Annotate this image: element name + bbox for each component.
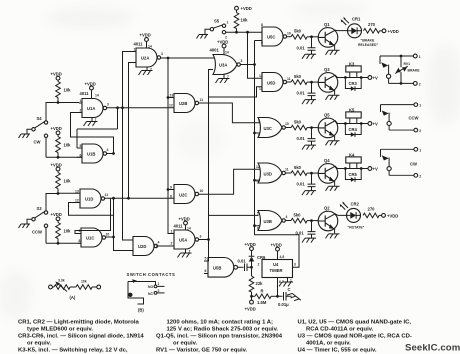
wire pins 6,7 bbox=[278, 278, 284, 297]
node +VDD terminal bbox=[382, 213, 399, 218]
svg-text:1: 1 bbox=[419, 148, 421, 152]
gate NAND U1C bbox=[78, 228, 109, 247]
gate NAND U1B bbox=[77, 144, 109, 163]
switch contacts diagram (B) bbox=[128, 279, 165, 304]
LED CR1 bbox=[341, 17, 362, 38]
resistor 10k bbox=[56, 173, 71, 194]
op: NAND U1A bbox=[79, 99, 109, 118]
svg-text:13: 13 bbox=[256, 179, 260, 183]
svg-text:5k0: 5k0 bbox=[294, 165, 302, 170]
transistor Q1 bbox=[318, 22, 339, 55]
resistor R 1.5M bbox=[252, 289, 278, 305]
node +VDD supply bbox=[51, 126, 62, 137]
svg-text:1200 ohms, 10 mA; contact rati: 1200 ohms, 10 mA; contact rating 1 A; bbox=[167, 320, 274, 326]
svg-text:+V: +V bbox=[373, 122, 378, 127]
svg-text:10k: 10k bbox=[64, 143, 72, 148]
node junction bbox=[57, 101, 60, 104]
gate NAND U5C bbox=[261, 23, 291, 46]
switch S5 bbox=[205, 19, 229, 40]
wire latch coupling U1D->U1C bbox=[75, 198, 111, 233]
svg-text:4: 4 bbox=[158, 241, 160, 245]
wire U5B output bbox=[238, 266, 244, 268]
svg-text:5k0: 5k0 bbox=[294, 213, 302, 218]
svg-text:12: 12 bbox=[169, 104, 173, 108]
ground (S3) bbox=[19, 224, 31, 228]
wire latch coupling U1B->U1A bbox=[71, 113, 114, 154]
gate NAND U5D bbox=[259, 73, 291, 92]
svg-text:3.3k: 3.3k bbox=[58, 279, 65, 283]
svg-text:U1, U2, U5 — CMOS quad NAND-ga: U1, U2, U5 — CMOS quad NAND-gate IC, bbox=[298, 320, 412, 326]
svg-text:22k: 22k bbox=[256, 281, 264, 286]
svg-text:13: 13 bbox=[259, 74, 263, 78]
svg-text:10k: 10k bbox=[81, 280, 87, 284]
svg-text:RELEASED”: RELEASED” bbox=[358, 43, 378, 47]
svg-text:or equiv.: or equiv. bbox=[173, 341, 197, 347]
svg-text:+VDD: +VDD bbox=[85, 82, 96, 87]
svg-text:Q1: Q1 bbox=[324, 22, 330, 27]
wire U2A input feeds bbox=[123, 52, 134, 199]
svg-text:14: 14 bbox=[148, 45, 152, 49]
wire / resistor 5k0 (ch3) bbox=[285, 120, 318, 130]
resistor 270 (ch1) bbox=[364, 22, 383, 33]
svg-text:+VDD: +VDD bbox=[51, 72, 62, 77]
resistor 10k bbox=[56, 137, 71, 158]
svg-text:0.01: 0.01 bbox=[297, 182, 306, 187]
wire bbox=[46, 156, 82, 158]
svg-text:U1B: U1B bbox=[87, 152, 95, 157]
wire bus (timer/rotate) x=254.5 bbox=[255, 41, 263, 226]
wire / resistor 5k0 (ch4) bbox=[285, 165, 318, 175]
svg-text:U2A: U2A bbox=[141, 56, 149, 61]
svg-text:125 V ac; Radio Shack 275-003: 125 V ac; Radio Shack 275-003 or equiv. bbox=[167, 327, 279, 333]
svg-text:U2B: U2B bbox=[179, 101, 187, 106]
wire pin 3 feedback to gates bbox=[255, 226, 300, 268]
svg-text:2: 2 bbox=[80, 109, 82, 113]
node +VDD supply top-left bbox=[51, 72, 62, 82]
wire latch coupling U1C->U1D bbox=[69, 203, 114, 216]
svg-text:U5B: U5B bbox=[213, 266, 221, 271]
resistor 10k bbox=[56, 223, 71, 244]
wire / resistor 5k0 (ch1) bbox=[287, 29, 319, 40]
gate NOR U3B bbox=[257, 211, 288, 231]
svg-text:CW: CW bbox=[410, 162, 417, 167]
resistor 22k bbox=[249, 267, 263, 296]
svg-text:U1D: U1D bbox=[85, 197, 93, 202]
svg-text:10k: 10k bbox=[241, 18, 249, 23]
svg-text:U5A: U5A bbox=[179, 238, 187, 243]
pin 4,8 +VDD bbox=[271, 243, 285, 260]
node +VDD supply bbox=[51, 212, 62, 223]
wire to U2D lower input bbox=[114, 198, 131, 250]
svg-text:SWITCH CONTACTS: SWITCH CONTACTS bbox=[127, 272, 176, 277]
svg-text:13: 13 bbox=[75, 190, 79, 194]
svg-text:RV1: RV1 bbox=[404, 62, 411, 66]
svg-text:+VDD: +VDD bbox=[387, 213, 398, 218]
node +VDD terminal bbox=[382, 29, 399, 34]
wire bus (rotate enable) x=168 bbox=[168, 58, 174, 234]
label 4011 / pin 14 / +VDD for U5A bbox=[174, 217, 191, 231]
svg-text:3: 3 bbox=[161, 52, 163, 56]
relay K5 with diode CR4 bbox=[337, 108, 378, 137]
svg-text:S5: S5 bbox=[214, 19, 220, 24]
transistor Q5 bbox=[318, 113, 339, 146]
svg-text:0.01: 0.01 bbox=[297, 46, 306, 51]
switch S3 bbox=[27, 206, 48, 243]
relay K4 with diode CR5 bbox=[337, 153, 378, 182]
node junctions bbox=[112, 197, 115, 200]
svg-text:10: 10 bbox=[200, 189, 204, 193]
capacitor 0.01 (ch1) bbox=[297, 35, 317, 58]
svg-text:Q1-Q5, incl. — Silicon npn tra: Q1-Q5, incl. — Silicon npn transistor, 2… bbox=[156, 334, 283, 340]
svg-text:(B): (B) bbox=[138, 308, 144, 313]
svg-text:U1C: U1C bbox=[86, 236, 94, 241]
wire latch coupling U1A->U1B bbox=[77, 108, 118, 148]
ground (U1A pin 7) bbox=[84, 118, 98, 127]
wire Q4 collector bbox=[335, 166, 337, 168]
svg-text:K4: K4 bbox=[349, 153, 355, 158]
svg-text:CCW: CCW bbox=[32, 230, 42, 235]
svg-text:NC: NC bbox=[148, 292, 153, 296]
svg-text:Q2: Q2 bbox=[324, 206, 330, 211]
wire / resistor 5k0 (ch5) bbox=[285, 213, 318, 223]
gate NAND U1D bbox=[75, 189, 108, 208]
svg-text:1: 1 bbox=[171, 230, 173, 234]
svg-text:13: 13 bbox=[170, 94, 174, 98]
timer U4 555 bbox=[262, 260, 293, 278]
svg-text:10k: 10k bbox=[64, 229, 72, 234]
ground (S5) bbox=[197, 35, 209, 39]
svg-text:Q5: Q5 bbox=[324, 113, 330, 118]
wire U2A output to U3A bbox=[161, 57, 214, 59]
gate NOR U3D bbox=[256, 163, 289, 183]
resistor 10k (S5 pull-up) bbox=[234, 13, 248, 33]
diode CR6 to +VDD bbox=[245, 242, 267, 267]
relay contacts K4 (cw) bbox=[381, 147, 422, 178]
relay contacts K5 (ccw) bbox=[381, 103, 422, 133]
svg-text:5: 5 bbox=[257, 212, 259, 216]
label 4011 / pin 14 / +VDD for U1A bbox=[80, 82, 99, 99]
relay contacts K3 (brake) bbox=[380, 54, 421, 86]
resistor 10k (CW pull-up) bbox=[56, 82, 71, 103]
svg-text:“ROTATE”: “ROTATE” bbox=[348, 226, 365, 230]
svg-text:11: 11 bbox=[105, 193, 109, 197]
svg-text:S3: S3 bbox=[37, 206, 43, 211]
svg-text:+VDD: +VDD bbox=[179, 217, 190, 222]
svg-text:TIMER: TIMER bbox=[270, 268, 283, 273]
svg-text:U5D: U5D bbox=[267, 81, 275, 86]
wire U1C output bbox=[106, 236, 114, 238]
svg-text:S4: S4 bbox=[37, 116, 43, 121]
svg-text:1: 1 bbox=[80, 99, 82, 103]
wire U2B output to U3C bbox=[199, 103, 260, 123]
svg-text:14: 14 bbox=[187, 227, 191, 231]
svg-text:8: 8 bbox=[261, 23, 263, 27]
label BRAKE RELEASED bbox=[358, 39, 378, 48]
ground (S4) bbox=[19, 134, 31, 138]
wire U2C output to U3D bbox=[199, 169, 260, 194]
svg-text:K3: K3 bbox=[349, 62, 355, 67]
svg-text:U3C: U3C bbox=[264, 126, 272, 131]
svg-text:3: 3 bbox=[241, 59, 243, 63]
svg-text:or equiv.: or equiv. bbox=[27, 341, 51, 347]
svg-text:+VDD: +VDD bbox=[245, 242, 256, 247]
svg-text:4: 4 bbox=[107, 148, 109, 152]
wire U5A output riser net bbox=[208, 70, 262, 262]
svg-text:0.01: 0.01 bbox=[297, 91, 306, 96]
svg-text:10k: 10k bbox=[64, 179, 72, 184]
svg-text:+VDD: +VDD bbox=[217, 40, 228, 45]
svg-text:5: 5 bbox=[205, 257, 207, 261]
node +VDD supply (CCW top) bbox=[51, 163, 62, 173]
gate NAND U5A bbox=[171, 230, 202, 250]
svg-text:11: 11 bbox=[285, 168, 289, 172]
svg-text:RV1 — Varistor, GE 750 or equi: RV1 — Varistor, GE 750 or equiv. bbox=[156, 348, 247, 354]
svg-text:U2D: U2D bbox=[138, 244, 146, 249]
potentiometer 3.3k with arrow bbox=[54, 279, 76, 292]
resistor 270 (ch5) bbox=[363, 207, 382, 218]
svg-text:2: 2 bbox=[419, 83, 421, 87]
capacitor 0.01 (ch3) bbox=[297, 126, 317, 149]
gate NOR U3A bbox=[213, 55, 243, 75]
wire Q2 collector bbox=[335, 214, 346, 216]
svg-text:4011: 4011 bbox=[174, 224, 184, 229]
svg-text:+V: +V bbox=[373, 76, 378, 81]
svg-text:4: 4 bbox=[286, 215, 288, 219]
svg-text:+VDD: +VDD bbox=[51, 126, 62, 131]
svg-text:2: 2 bbox=[419, 129, 421, 133]
label 4001 / pin 14 / +VDD for U3A bbox=[210, 40, 229, 55]
svg-text:CR4: CR4 bbox=[349, 127, 358, 132]
node junction bbox=[276, 295, 279, 298]
ground (U3A pin 7) bbox=[216, 74, 230, 83]
svg-text:1: 1 bbox=[158, 282, 160, 286]
gate NAND U5B bbox=[204, 257, 238, 278]
svg-text:U5C: U5C bbox=[267, 35, 275, 40]
svg-text:10: 10 bbox=[285, 122, 289, 126]
svg-text:+VDD: +VDD bbox=[245, 307, 256, 312]
svg-text:270: 270 bbox=[368, 207, 376, 212]
resistor 10k diagram (A) bbox=[76, 280, 101, 290]
svg-text:2: 2 bbox=[419, 174, 421, 178]
wire Q5 collector bbox=[335, 121, 337, 124]
svg-text:(A): (A) bbox=[70, 295, 76, 300]
svg-text:CR3-CR6, incl. — Silicon signa: CR3-CR6, incl. — Silicon signal diode, 1… bbox=[18, 334, 144, 340]
svg-text:4001: 4001 bbox=[210, 48, 220, 53]
gate NAND U2D bbox=[130, 237, 160, 256]
svg-text:U2C: U2C bbox=[179, 193, 187, 198]
svg-text:+VDD: +VDD bbox=[51, 212, 62, 217]
svg-text:12: 12 bbox=[259, 87, 263, 91]
svg-text:+VDD: +VDD bbox=[140, 33, 151, 38]
svg-text:11: 11 bbox=[200, 98, 204, 102]
svg-text:NO: NO bbox=[148, 285, 153, 289]
wire U1A output bbox=[107, 107, 171, 109]
potentiometer diagram (A) left terminal bbox=[49, 285, 54, 289]
svg-text:1: 1 bbox=[419, 55, 421, 59]
wire U1D output bbox=[105, 197, 171, 199]
svg-text:0.01: 0.01 bbox=[238, 259, 247, 264]
wire bbox=[46, 103, 79, 121]
transistor Q3 bbox=[318, 67, 339, 100]
svg-text:CCW: CCW bbox=[409, 116, 419, 121]
svg-text:U3 — CMOS quad NOR-gate IC, RC: U3 — CMOS quad NOR-gate IC, RCA CD- bbox=[298, 334, 412, 340]
svg-text:3: 3 bbox=[107, 103, 109, 107]
svg-text:14: 14 bbox=[225, 51, 229, 55]
svg-text:5: 5 bbox=[80, 144, 82, 148]
wire U2D output to U5A bbox=[156, 245, 174, 247]
svg-text:CR1, CR2 — Light-emitting diod: CR1, CR2 — Light-emitting diode, Motorol… bbox=[18, 320, 139, 326]
gate NAND U2B bbox=[168, 94, 203, 113]
svg-text:BRAKE: BRAKE bbox=[408, 69, 421, 73]
svg-text:4011: 4011 bbox=[80, 91, 90, 96]
svg-text:11: 11 bbox=[287, 77, 291, 81]
svg-text:8: 8 bbox=[79, 239, 81, 243]
svg-text:CR1: CR1 bbox=[352, 17, 361, 22]
svg-text:6: 6 bbox=[257, 227, 259, 231]
svg-text:SeekIC.com: SeekIC.com bbox=[405, 343, 460, 354]
svg-text:+VDD: +VDD bbox=[388, 29, 399, 34]
wire S5 node to U5C bbox=[226, 31, 262, 33]
wire S5 to U5D input bbox=[248, 32, 263, 78]
capacitor C 0.01u bbox=[278, 287, 301, 307]
svg-text:10: 10 bbox=[106, 233, 110, 237]
relay K3 with diode CR3 bbox=[337, 62, 378, 91]
wire Q1 collector bbox=[335, 29, 347, 31]
capacitor 0.01 (ch2) bbox=[297, 81, 317, 104]
svg-text:6: 6 bbox=[80, 154, 82, 158]
wire / resistor 5k0 (ch2) bbox=[287, 74, 319, 84]
svg-text:10k: 10k bbox=[64, 88, 72, 93]
svg-text:C: C bbox=[288, 287, 291, 292]
wire U3A output to bus bbox=[240, 64, 254, 66]
node junction bbox=[57, 242, 60, 245]
label 4011 / pin 14 / +VDD for U2A bbox=[134, 33, 152, 49]
svg-text:5k0: 5k0 bbox=[294, 29, 302, 34]
svg-text:CR2: CR2 bbox=[351, 202, 360, 207]
node +VDD supply above S5 resistor bbox=[235, 6, 252, 12]
svg-text:U1A: U1A bbox=[87, 106, 95, 111]
svg-text:U3D: U3D bbox=[264, 172, 272, 177]
svg-text:U3A: U3A bbox=[219, 63, 227, 68]
svg-text:U4: U4 bbox=[273, 262, 279, 267]
svg-text:5k0: 5k0 bbox=[294, 74, 302, 79]
svg-text:1: 1 bbox=[134, 48, 136, 52]
svg-text:8: 8 bbox=[170, 195, 172, 199]
svg-text:Q3: Q3 bbox=[324, 67, 330, 72]
svg-text:9: 9 bbox=[261, 41, 263, 45]
switch S4 bbox=[27, 116, 48, 157]
svg-text:0.01μ: 0.01μ bbox=[278, 302, 289, 307]
gate NOR U3C bbox=[258, 118, 289, 138]
node +VDD terminal below bbox=[245, 296, 256, 311]
varistor RV1 bbox=[395, 56, 420, 83]
svg-text:2: 2 bbox=[225, 36, 227, 40]
svg-text:8: 8 bbox=[258, 119, 260, 123]
ground (U2A pin 7) bbox=[139, 67, 153, 75]
node junctions on U1A output bbox=[116, 106, 119, 109]
wire bbox=[46, 242, 81, 244]
wire Q3 collector bbox=[335, 75, 337, 77]
svg-text:RCA CD-4011A or equiv.: RCA CD-4011A or equiv. bbox=[306, 327, 374, 333]
svg-text:1: 1 bbox=[227, 21, 229, 25]
svg-text:6: 6 bbox=[205, 269, 207, 273]
svg-text:5k0: 5k0 bbox=[294, 120, 302, 125]
svg-text:1.5M: 1.5M bbox=[257, 300, 267, 305]
wire bbox=[46, 193, 77, 210]
ground pin 1 bbox=[279, 278, 293, 287]
svg-text:4011: 4011 bbox=[134, 42, 144, 47]
svg-text:14: 14 bbox=[95, 94, 99, 98]
svg-text:U4 — Timer IC, 555 or equiv.: U4 — Timer IC, 555 or equiv. bbox=[298, 348, 377, 354]
transistor Q2 bbox=[318, 206, 339, 239]
gate NAND U2A bbox=[133, 48, 163, 68]
capacitor 0.01 (ch4) bbox=[297, 172, 317, 195]
svg-text:10: 10 bbox=[287, 32, 291, 36]
svg-text:9: 9 bbox=[258, 134, 260, 138]
svg-text:+VDD: +VDD bbox=[241, 6, 252, 11]
svg-text:“BRAKE: “BRAKE bbox=[361, 39, 375, 43]
LED CR2 bbox=[340, 201, 361, 222]
capacitor 0.01 (ch5) bbox=[296, 219, 317, 242]
svg-text:2: 2 bbox=[158, 289, 160, 293]
svg-text:9: 9 bbox=[170, 186, 172, 190]
svg-text:U3B: U3B bbox=[264, 219, 272, 224]
svg-text:0.01: 0.01 bbox=[297, 136, 306, 141]
svg-text:CR3: CR3 bbox=[349, 81, 358, 86]
svg-text:4,8: 4,8 bbox=[280, 255, 285, 259]
svg-text:2: 2 bbox=[258, 263, 260, 267]
ground (U5A pin 7) bbox=[178, 249, 192, 258]
svg-text:K5: K5 bbox=[349, 108, 355, 113]
svg-text:3: 3 bbox=[294, 263, 296, 267]
transistor Q4 bbox=[318, 158, 339, 191]
svg-text:12: 12 bbox=[75, 199, 79, 203]
node junction bbox=[250, 266, 253, 269]
svg-text:CR5: CR5 bbox=[349, 172, 358, 177]
svg-text:R: R bbox=[261, 289, 264, 294]
svg-text:Q4: Q4 bbox=[324, 158, 330, 163]
wire bus to U2D bbox=[123, 108, 131, 240]
wire U1B output bbox=[107, 153, 114, 155]
svg-text:K3-K5, incl. — Switching relay: K3-K5, incl. — Switching relay, 12 V dc, bbox=[18, 348, 128, 354]
capacitor 0.01 (coupling) bbox=[238, 259, 252, 272]
svg-text:type MLED600 or equiv.: type MLED600 or equiv. bbox=[27, 327, 93, 333]
svg-text:3: 3 bbox=[200, 235, 202, 239]
svg-text:2: 2 bbox=[171, 242, 173, 246]
wire U5A output bbox=[199, 239, 209, 241]
svg-text:270: 270 bbox=[368, 22, 376, 27]
svg-text:4001A, or equiv.: 4001A, or equiv. bbox=[306, 341, 351, 347]
node junction bbox=[250, 295, 253, 298]
svg-text:12: 12 bbox=[256, 165, 260, 169]
node junction bbox=[57, 156, 60, 159]
svg-text:+V: +V bbox=[373, 167, 378, 172]
node junction bbox=[57, 192, 60, 195]
svg-text:1: 1 bbox=[419, 104, 421, 108]
svg-text:+VDD: +VDD bbox=[51, 163, 62, 168]
svg-text:+VDD: +VDD bbox=[271, 243, 282, 248]
svg-text:CW: CW bbox=[34, 140, 41, 145]
gate NAND U2C bbox=[168, 185, 203, 204]
